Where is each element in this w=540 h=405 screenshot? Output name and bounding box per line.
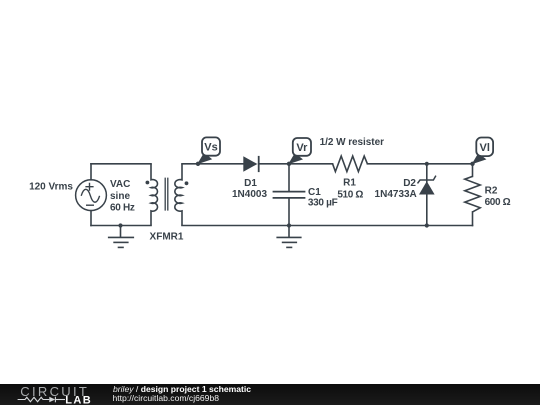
primary winding [151, 164, 158, 226]
svg-text:VAC: VAC [110, 179, 130, 190]
node Vr [287, 162, 291, 166]
label VAC sine 60 Hz [110, 179, 135, 213]
wire primary top rail [91, 163, 151, 165]
zener diode D2 [426, 164, 428, 226]
secondary winding [175, 164, 182, 226]
ground (primary) [108, 237, 134, 247]
node Vl [470, 162, 474, 166]
wire D1 to R1 [259, 163, 333, 165]
wire C1 bottom lead [288, 198, 290, 225]
svg-text:Vs: Vs [204, 142, 217, 154]
wire R2 top lead [472, 164, 474, 177]
ground (secondary) [276, 237, 301, 247]
svg-text:R2: R2 [485, 186, 498, 197]
svg-text:R1: R1 [343, 178, 356, 189]
phase dot secondary [185, 181, 189, 185]
svg-text:1/2 W resister: 1/2 W resister [320, 137, 384, 148]
wire bottom rail [182, 225, 473, 227]
wire primary ground stub [120, 226, 122, 238]
svg-text:120 Vrms: 120 Vrms [29, 182, 73, 193]
voltage source V1 120Vrms [76, 180, 107, 211]
capacitor C1 [273, 192, 306, 198]
svg-text:330 µF: 330 µF [308, 197, 338, 208]
svg-text:600 Ω: 600 Ω [485, 197, 511, 208]
diode D1 [243, 156, 257, 171]
wire secondary top rail to D1 [182, 163, 243, 165]
svg-text:LAB: LAB [65, 394, 92, 405]
svg-text:Vr: Vr [296, 142, 308, 154]
wire C1 ground stub [288, 226, 290, 238]
resistor R1 [333, 156, 368, 172]
wire primary bottom rail [91, 225, 151, 227]
core lines [165, 178, 168, 211]
svg-text:C1: C1 [308, 187, 321, 198]
svg-text:1N4733A: 1N4733A [375, 189, 417, 200]
svg-text:1N4003: 1N4003 [232, 189, 267, 200]
wire primary left upper [90, 164, 92, 180]
svg-text:XFMR1: XFMR1 [150, 232, 184, 243]
transformer XFMR1 [151, 164, 182, 226]
node Vs [196, 162, 200, 166]
svg-text:D2: D2 [403, 178, 416, 189]
junction dot D2 bottom [425, 223, 429, 227]
junction dot primary ground [118, 223, 122, 227]
wire primary left lower [90, 211, 92, 226]
wire R2 bottom lead [472, 212, 474, 226]
svg-text:sine: sine [110, 191, 130, 202]
svg-text:60 Hz: 60 Hz [110, 203, 135, 214]
wire C1 top lead [288, 164, 290, 192]
junction dot C1 bottom [287, 223, 291, 227]
svg-text:Vl: Vl [479, 142, 489, 154]
phase dot primary [146, 181, 150, 185]
svg-text:510 Ω: 510 Ω [337, 190, 363, 201]
wire R1 to R2 corner [367, 163, 472, 165]
svg-text:D1: D1 [244, 178, 257, 189]
svg-text:http://circuitlab.com/cj669b8: http://circuitlab.com/cj669b8 [113, 393, 220, 403]
resistor R2 [465, 176, 480, 212]
junction dot D2 top [425, 162, 429, 166]
